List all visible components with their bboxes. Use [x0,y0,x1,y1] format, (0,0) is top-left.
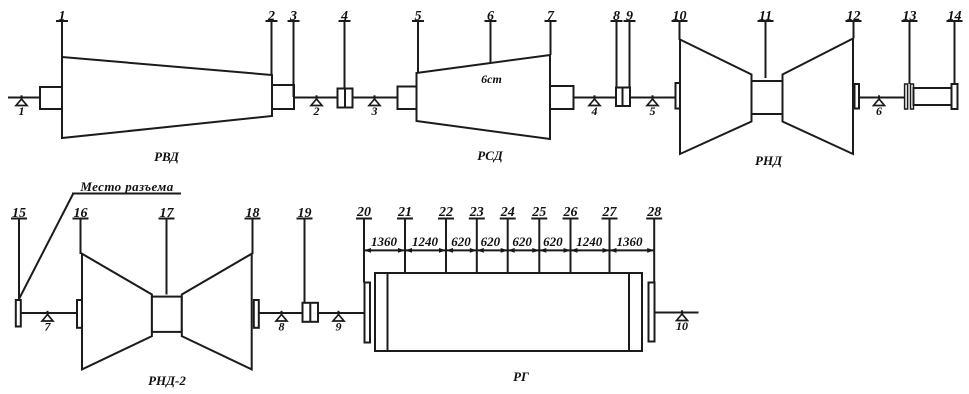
generator RG body [375,273,642,351]
dimension value 620 d [543,234,563,249]
node 5 [412,9,424,73]
leader line [19,194,73,299]
dimension value 1360 [371,234,398,249]
dimension arrows [364,248,654,253]
dimension value 620 a [451,234,471,249]
svg-text:620: 620 [512,234,532,249]
wire shaft left stub [8,97,40,99]
svg-text:6ст: 6ст [481,72,502,86]
node 10 [672,9,688,40]
dimension value 1360 b [617,234,644,249]
svg-text:620: 620 [481,234,501,249]
node 15 [11,206,27,300]
coupling C1 [338,89,353,108]
rotor RND flange right [855,84,860,109]
label RSD [477,148,504,163]
node 18 [245,206,261,254]
node 27 [602,205,618,273]
rotor RND flange left [676,83,681,109]
node 2 [266,9,278,75]
node 20 [356,205,372,283]
label RND [755,153,783,168]
node 3 [288,9,300,97]
rotor RVD journal right [272,85,294,109]
node 16 [73,206,89,254]
rotor RND-2 flange left [77,300,82,328]
svg-text:РВД: РВД [154,149,180,164]
bearing 5 [647,95,658,118]
wire RSD to coupling 2 [574,97,617,99]
bearing 7 [42,311,53,334]
svg-text:8: 8 [279,320,285,334]
svg-text:1: 1 [19,104,25,118]
bearing 8 [276,311,287,334]
label RVD [154,149,180,164]
dimension value 1240 b [576,234,603,249]
node 6 [485,9,497,63]
rotor RSD body [417,55,551,139]
node 17 [159,206,175,295]
jack shaft flange right [952,84,958,109]
rotor RVD journal left [40,87,62,109]
node 24 [500,205,516,273]
dimension value 620 c [512,234,532,249]
svg-text:1360: 1360 [371,234,398,249]
bearing 10 [676,310,688,333]
wire coupling to generator [318,312,365,314]
dimension value 620 b [481,234,501,249]
svg-text:620: 620 [451,234,471,249]
rotor RND-2 right cone [182,254,252,370]
wire coupling to RSD [353,97,398,99]
node 28 [646,205,662,283]
rotor RND left cone [680,40,752,155]
rotor RND right cone [783,39,854,155]
svg-text:1240: 1240 [576,234,603,249]
rotor RND-2 hub [152,297,182,332]
rotor RSD journal left [398,87,417,110]
node 11 [758,9,774,78]
wire coupling to RND [630,97,676,99]
wire flange15 to RND-2 [21,312,77,314]
svg-text:1360: 1360 [617,234,644,249]
generator flange right [649,283,655,342]
wire generator right stub [655,312,699,314]
svg-text:10: 10 [676,319,688,333]
node 12 [846,9,862,39]
rotor RND-2 flange right [254,300,259,328]
bearing 3 [369,95,380,118]
label RND-2 [148,373,186,388]
coupling C3 [303,303,319,322]
svg-text:4: 4 [591,104,598,118]
svg-text:5: 5 [650,104,656,118]
svg-text:РНД: РНД [755,153,783,168]
label Mesto razyema [72,179,181,194]
wire RND to coupling 13 [859,97,905,99]
node 14 [947,9,963,84]
dimension value 1240 [412,234,439,249]
svg-text:2: 2 [313,104,320,118]
svg-text:7: 7 [45,320,52,334]
svg-text:РНД-2: РНД-2 [148,373,186,388]
bearing 6 [874,95,885,118]
svg-text:Место разъема: Место разъема [79,179,173,194]
rotor RND-2 left cone [82,254,152,370]
rotor RND hub [752,81,783,114]
node 13 [902,9,918,84]
node 22 [438,205,454,273]
node 8 [611,9,623,88]
svg-text:3: 3 [371,104,378,118]
node 19 [297,206,313,303]
bearing 4 [589,95,600,118]
rotor RVD body [62,57,272,138]
node 25 [531,205,547,273]
bearing 9 [333,311,344,334]
svg-text:1240: 1240 [412,234,439,249]
rotor RSD journal right [550,86,574,109]
bearing 1 [16,95,27,118]
svg-text:9: 9 [336,320,342,334]
bearing 2 [311,95,322,118]
jack shaft cylinder [914,88,953,105]
svg-text:6: 6 [876,104,882,118]
node 7 [545,9,557,55]
svg-text:РСД: РСД [477,148,504,163]
shaft coupling flange 15 [16,300,21,327]
svg-text:РГ: РГ [513,369,529,384]
label RG [513,369,529,384]
node 21 [397,205,413,273]
wire RND-2 to coupling 19 [259,312,303,314]
svg-text:620: 620 [543,234,563,249]
coupling C13 disc pair [905,84,914,109]
node 1 [56,9,68,57]
node 9 [624,9,636,88]
node 26 [563,205,579,273]
coupling C2 [616,88,630,107]
wire shaft RVD to coupling [294,97,338,99]
node 23 [469,205,485,273]
generator flange left [365,283,371,343]
node 4 [339,9,351,89]
dimension chain line [364,249,654,251]
